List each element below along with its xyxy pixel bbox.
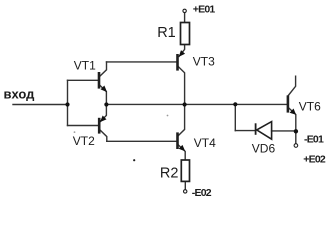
svg-text:VT2: VT2 bbox=[73, 134, 95, 148]
speck noise 1 bbox=[74, 131, 76, 133]
transistor VT3 emitter from R1 bbox=[179, 45, 185, 57]
wire node to diode cathode bbox=[235, 130, 255, 132]
terminal +E01 bbox=[183, 9, 186, 12]
transistor VT2 emitter arrow bbox=[98, 116, 106, 124]
svg-text:-E01: -E01 bbox=[304, 134, 324, 146]
svg-text:R2: R2 bbox=[160, 165, 179, 181]
node input junction bbox=[65, 102, 69, 106]
speck noise 2 bbox=[167, 115, 169, 117]
transistor VT6 collector stub bbox=[288, 76, 295, 95]
diode VD6 bbox=[256, 122, 272, 140]
svg-text:вход: вход bbox=[4, 87, 36, 102]
transistor VT6 emitter bbox=[288, 108, 295, 144]
terminal -E02 bbox=[184, 190, 187, 193]
wire R1 top lead bbox=[184, 13, 186, 23]
svg-text:+E02: +E02 bbox=[303, 153, 326, 165]
transistor VT2 emitter bbox=[100, 104, 107, 122]
transistor VT3 emitter arrow bbox=[177, 50, 185, 59]
svg-text:VT3: VT3 bbox=[193, 55, 215, 69]
svg-text:+E01: +E01 bbox=[193, 4, 216, 16]
node diode tap bbox=[233, 102, 237, 106]
transistor VT1 base bar bbox=[98, 72, 101, 89]
transistor VT2 collector bbox=[99, 129, 107, 141]
node diode/emitter bbox=[294, 129, 298, 133]
wire VT1 base bbox=[68, 79, 98, 81]
transistor VT1 collector bbox=[99, 62, 107, 77]
wire VT2 base bbox=[68, 125, 99, 127]
wire VT2 collector to VT4 base bbox=[107, 140, 177, 142]
resistor R1 bbox=[181, 23, 190, 45]
transistor VT4 emitter bbox=[178, 145, 185, 160]
resistor R2 bbox=[181, 160, 189, 181]
transistor VT6 emitter arrow bbox=[290, 108, 298, 116]
wire diode tap vertical bbox=[234, 104, 236, 130]
wire input vertical to bases bbox=[67, 80, 69, 125]
transistor VT3 collector bbox=[178, 66, 185, 104]
transistor VT3 base bar bbox=[176, 54, 179, 71]
svg-text:VT6: VT6 bbox=[299, 99, 321, 113]
svg-text:VT1: VT1 bbox=[74, 59, 96, 73]
transistor VT4 base bar bbox=[176, 132, 179, 149]
transistor VT4 collector bbox=[178, 104, 185, 136]
speck noise 3 bbox=[133, 159, 135, 161]
transistor VT2 base bar bbox=[98, 118, 101, 134]
node VT1/VT2 emitters bbox=[104, 102, 108, 106]
terminal -E01/+E02 bbox=[294, 144, 298, 148]
wire diode anode to emitter column bbox=[272, 130, 296, 132]
wire R2 bottom lead bbox=[184, 181, 186, 189]
svg-text:R1: R1 bbox=[157, 25, 176, 41]
node VT3/VT4 collectors bbox=[183, 102, 187, 106]
transistor VT4 emitter arrow bbox=[179, 145, 187, 153]
wire middle node row bbox=[106, 103, 287, 105]
wire input horizontal bbox=[13, 104, 68, 106]
wire VT1 collector to VT3 base bbox=[107, 61, 177, 63]
transistor VT1 emitter bbox=[99, 85, 106, 105]
svg-text:VD6: VD6 bbox=[252, 142, 276, 156]
svg-text:VT4: VT4 bbox=[194, 136, 216, 150]
transistor VT1 emitter arrow bbox=[101, 86, 109, 94]
svg-text:-E02: -E02 bbox=[192, 187, 212, 199]
transistor VT6 base bar bbox=[287, 95, 290, 112]
